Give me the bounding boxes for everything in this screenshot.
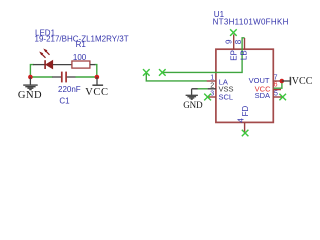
wire: top-right corner from resistor down to right node [95, 65, 97, 77]
LED LED1 triangle [46, 60, 53, 69]
wire: VCC pin 6 up to VOUT node [274, 82, 282, 89]
svg-text:VCC: VCC [85, 87, 108, 98]
svg-text:R1: R1 [76, 40, 87, 49]
wire: dark segment from GND port to pin 2 [192, 88, 198, 90]
resistor R1 body [72, 61, 90, 68]
capacitor C1 left lead [52, 76, 61, 78]
wire: net to pin 1 LA [146, 72, 207, 81]
svg-text:4: 4 [236, 118, 245, 123]
no-ERC cross on pin 5 (SDA) [279, 94, 286, 101]
svg-text:EP: EP [230, 50, 239, 61]
capacitor C1 right plate [65, 72, 67, 83]
svg-text:2: 2 [210, 83, 214, 90]
ground symbol (left circuit) [23, 77, 38, 90]
junction dot at VOUT/VCC node [280, 79, 285, 84]
svg-text:8: 8 [234, 39, 243, 44]
svg-text:GND: GND [18, 90, 42, 101]
no-ERC cross on pin 3 (SCL) [204, 94, 211, 101]
capacitor C1 left plate [61, 72, 63, 83]
wire: top-left corner from left node up to LED [30, 65, 33, 77]
wire: bottom rail left green segment [30, 76, 52, 78]
svg-text:9: 9 [225, 39, 234, 44]
svg-text:1: 1 [210, 74, 214, 81]
pin 9 EP (top) [233, 34, 235, 49]
wire: dark segment from node to VCC port [282, 80, 291, 82]
svg-text:SCL: SCL [219, 92, 234, 101]
pin 1 LA [207, 80, 216, 82]
svg-text:VCC: VCC [292, 76, 313, 87]
no-ERC cross on pin 4 (FD) [242, 130, 249, 137]
svg-text:FD: FD [241, 106, 250, 117]
LED LED1 emission arrow 2 [43, 49, 49, 55]
pin 7 VOUT [273, 80, 281, 82]
LED LED1 emission arrow 1 [39, 52, 45, 58]
junction dot right (VCC node) [95, 75, 100, 80]
VCC power port bar (right) [289, 77, 291, 85]
svg-text:6: 6 [274, 81, 278, 88]
svg-text:LB: LB [239, 50, 248, 60]
resistor R1 right lead [90, 64, 95, 66]
svg-text:220nF: 220nF [58, 85, 81, 94]
capacitor C1 right lead [67, 76, 76, 78]
LED LED1 cathode bar [44, 60, 46, 69]
wire: bottom rail right green segment [75, 76, 97, 78]
LED LED1 left lead [33, 64, 45, 66]
junction dot left (GND node) [28, 75, 33, 80]
pin 4 FD (bottom) [244, 122, 246, 132]
no-ERC cross on pin 9 (EP) [230, 29, 237, 36]
svg-text:NT3H1101W0FHKH: NT3H1101W0FHKH [213, 18, 289, 27]
ground symbol (U1 VSS) [186, 89, 198, 99]
no-ERC cross on wire end (node LA net) [143, 69, 150, 76]
no-ERC cross on wire end (node LB net) [159, 69, 166, 76]
op-amp U1 body rectangle [216, 49, 273, 122]
svg-text:5: 5 [274, 91, 278, 98]
VCC power port bar (left circuit) [92, 77, 103, 85]
pin 2 VSS (overlapped by GND wire, dark) [208, 88, 216, 90]
wire: green segment to pin 2 VSS [197, 88, 207, 90]
svg-text:SDA: SDA [255, 91, 270, 100]
pin 5 SDA [273, 96, 281, 98]
pin 6 VCC [273, 89, 281, 91]
pin 3 SCL [207, 96, 216, 98]
wire: net from LB pin down through body to left [162, 38, 244, 73]
svg-text:7: 7 [274, 74, 278, 81]
svg-text:GND: GND [183, 100, 203, 110]
svg-text:C1: C1 [59, 96, 70, 105]
LED LED1 right lead [53, 64, 72, 66]
pin 8 LB (top) [244, 38, 246, 49]
